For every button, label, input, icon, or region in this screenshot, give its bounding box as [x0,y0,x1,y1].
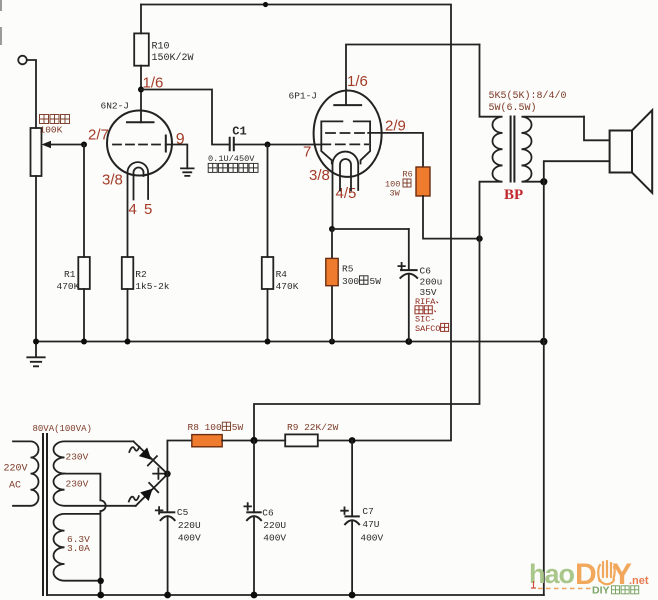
resistor R2 [122,257,134,289]
svg-text:5K5(5K):8/4/0: 5K5(5K):8/4/0 [489,90,567,102]
svg-text:3/8: 3/8 [102,172,123,189]
potentiometer wiper arrow [45,144,84,146]
power transformer core [43,433,47,596]
plus sign rectifier output [153,468,163,478]
6N2 cathode arch outer [128,162,149,257]
svg-text:400V: 400V [263,533,286,544]
svg-text:AC: AC [9,481,21,492]
squiggle AC mark bottom [129,496,139,501]
svg-text:0.1U/450V: 0.1U/450V [208,154,255,164]
watermark haoDIY.net [529,558,649,597]
svg-text:SAFCO: SAFCO [415,324,441,334]
secondary winding 230V upper [53,441,133,473]
node grid 2/7 [81,142,87,148]
resistor R8 [192,435,222,447]
6P1 grids dashed [326,132,368,134]
svg-text:C6: C6 [262,508,274,519]
6P1 cathode arch outer [333,152,359,229]
speaker [610,131,632,173]
pentode 6P1-J envelope [314,91,382,177]
secondary winding 230V lower [53,474,135,506]
6N2 plate [126,121,155,123]
6P1 plate wire to B+ [346,45,480,106]
resistor R1 leads [83,145,85,342]
svg-text:R9 22K/2W: R9 22K/2W [287,422,339,433]
cathode node 6P1 [329,226,335,232]
svg-text:7: 7 [303,144,311,161]
node on top rail [263,2,268,7]
potentiometer 100K body [31,128,42,176]
svg-text:2/7: 2/7 [88,127,109,144]
bottom rail [48,594,544,596]
svg-text:R8 100: R8 100 [188,422,223,433]
ground symbol [27,342,44,367]
svg-text:5W: 5W [370,276,382,287]
svg-text:1/6: 1/6 [347,73,368,90]
squiggle AC mark top [129,447,139,452]
node rectifier output [164,471,171,478]
svg-text:R4: R4 [276,269,288,280]
node BP return [540,178,547,185]
node R8/R9/C6 [250,437,257,444]
center tap wire with hop [65,474,106,595]
wire C1 to 6P1 grid pin7 [234,144,321,146]
label 电位器 100K [40,115,70,124]
diode D1 branch [133,441,167,473]
resistor R6 [416,167,430,196]
node heater/CT [98,578,104,584]
svg-text:100K: 100K [40,125,63,136]
svg-text:2/9: 2/9 [385,118,406,135]
resistor R9 [285,434,318,446]
ground rail [36,341,544,343]
svg-text:9: 9 [176,131,185,148]
svg-text:150K/2W: 150K/2W [152,52,194,64]
svg-text:300: 300 [342,276,359,287]
wire R6 bottom to primary node [423,196,480,239]
svg-text:220U: 220U [178,520,201,531]
svg-text:3/8: 3/8 [309,167,330,184]
svg-text:470K: 470K [276,281,299,292]
diode D1 [139,447,157,465]
capacitor C5 [166,474,168,512]
capacitor C7 [351,441,353,517]
svg-text:hao: hao [529,559,575,589]
wire R8 to node [222,440,285,442]
svg-text:230V: 230V [66,452,89,463]
svg-text:47U: 47U [362,519,379,530]
resistor R4 [262,257,274,289]
svg-text:6N2-J: 6N2-J [101,101,130,112]
wire BP return down to bottom rail [543,182,545,595]
svg-text:6P1-J: 6P1-J [289,91,318,102]
svg-text:400V: 400V [178,533,201,544]
svg-text:4: 4 [129,201,137,218]
capacitor C1 plates [230,137,234,152]
svg-text:400V: 400V [360,533,383,544]
ground at pin 9 [181,168,194,176]
wire 1/6 to C1 [141,90,230,145]
heater winding 6.3V [53,514,102,581]
output transformer secondary [522,117,585,182]
svg-text:R1: R1 [64,269,76,280]
wire secondary bottom to speaker [544,161,610,182]
svg-text:DIY: DIY [592,585,610,597]
svg-text:3.0A: 3.0A [67,543,90,554]
resistor R5 leads [331,229,333,342]
wire rectifier to R8 [167,441,191,474]
svg-text:C5: C5 [177,507,189,518]
6N2 cathode bar pin 9 [165,135,167,153]
triode 6N2-J envelope [107,111,172,176]
wire input to potentiometer [27,60,36,128]
6P1 beam plates [321,121,370,163]
6P1 plate bar [333,104,362,106]
resistor R1 [78,257,90,289]
svg-text:.net: .net [629,575,649,587]
diode D2 [140,483,158,501]
capacitor C6 cathode bypass [408,229,410,270]
capacitor C6 filter [253,441,255,513]
resistor R10 leads [140,5,142,123]
svg-text:200u: 200u [420,277,443,288]
resistor R2 lead [127,289,129,342]
svg-text:R10: R10 [152,42,170,53]
svg-text:BP: BP [504,187,523,203]
svg-text:R6: R6 [403,170,413,180]
svg-text:80VA(100VA): 80VA(100VA) [33,424,92,434]
svg-text:5: 5 [144,201,152,218]
svg-text:3W: 3W [390,189,401,199]
resistor R5 [326,258,338,285]
output transformer core [511,116,515,183]
svg-text:470K: 470K [57,281,80,292]
svg-text:5W(6.5W): 5W(6.5W) [489,102,537,114]
svg-text:C1: C1 [232,124,246,138]
input terminal [18,56,27,65]
wire secondary top to speaker [584,117,610,141]
node 1/6 of 6N2 [138,87,144,93]
wire screen 2/9 to R6 [368,133,423,167]
svg-text:1k5-2k: 1k5-2k [135,281,170,292]
6P1 heater arch inner [340,159,351,191]
svg-text:R5: R5 [342,264,354,275]
svg-text:220U: 220U [263,520,286,531]
ground rail nodes [33,339,39,345]
svg-text:C6: C6 [420,266,432,277]
node grid/R4 [265,142,271,148]
wire pin9 to ground [166,145,188,169]
svg-text:230V: 230V [66,479,89,490]
edge artifacts [0,0,2,45]
wire pot bottom to ground rail [35,176,37,342]
diode D2 branch [136,474,168,506]
power transformer primary 220V [13,441,39,505]
svg-text:5W: 5W [232,422,244,433]
wire cathode node to C6 [332,228,409,230]
svg-text:4/5: 4/5 [336,185,357,202]
output transformer primary [254,45,503,441]
resistor R10 [134,33,149,65]
6N2 grid dashed [113,144,161,146]
svg-text:SIC-: SIC- [415,315,435,325]
svg-text:220V: 220V [4,464,28,475]
6N2 heater arch inner pins 4 5 [134,168,144,200]
top B+ rail [141,5,451,441]
resistor R4 leads [267,145,269,342]
node C7 [349,437,356,444]
svg-text:C7: C7 [362,506,373,517]
node primary/R6 [476,235,482,241]
svg-text:R2: R2 [135,269,147,280]
